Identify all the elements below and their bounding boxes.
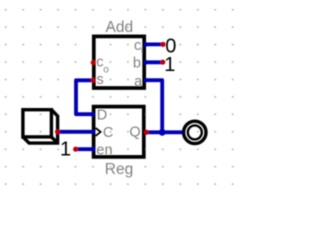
svg-text:b: b <box>133 56 141 72</box>
port dot Add.s <box>91 78 96 83</box>
port dot const1b output <box>73 147 78 152</box>
svg-text:o: o <box>103 65 109 76</box>
svg-text:Reg: Reg <box>105 161 133 178</box>
port dot const0 output <box>160 42 165 47</box>
wire const1 to Reg.en <box>76 147 94 151</box>
wire const0 to Add.ci <box>146 43 163 47</box>
output probe O1 <box>184 121 206 143</box>
clock-input chevron on Reg pin C <box>96 128 101 136</box>
port dot Reg.Q <box>144 130 149 135</box>
port dot const1 output <box>160 60 165 65</box>
svg-text:i: i <box>141 45 143 56</box>
svg-text:en: en <box>96 142 112 158</box>
wire end cap Add.b <box>144 60 148 64</box>
svg-text:C: C <box>103 125 113 141</box>
wire end cap Add.ci <box>144 42 148 46</box>
button B1 3D body <box>23 110 58 143</box>
svg-text:1: 1 <box>60 138 71 160</box>
wire button to Reg.C <box>58 130 94 134</box>
wire Add.s to Reg.D <box>76 80 93 114</box>
svg-text:s: s <box>97 72 104 88</box>
port dot Add.co <box>91 60 96 65</box>
port dot button output <box>55 129 60 134</box>
wire junction at Q net <box>159 129 166 136</box>
wire const1 to Add.b <box>146 60 163 64</box>
svg-text:a: a <box>134 74 143 90</box>
wire Reg.Q to output probe <box>146 130 182 134</box>
svg-text:D: D <box>97 108 107 124</box>
subcircuit U2 Reg box <box>94 107 144 157</box>
subcircuit U1 Add box <box>94 36 144 88</box>
grid dots <box>5 9 234 185</box>
wires <box>58 44 183 149</box>
svg-text:1: 1 <box>164 54 175 76</box>
svg-text:Add: Add <box>106 19 134 36</box>
wire end cap Reg.en <box>91 147 95 151</box>
wire Add.a feedback from Q net <box>146 80 162 132</box>
svg-text:Q: Q <box>129 124 140 140</box>
wire end cap Reg.D <box>90 112 94 116</box>
